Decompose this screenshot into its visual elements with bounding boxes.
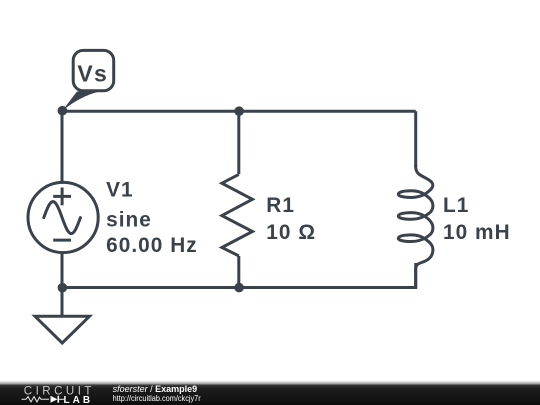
V1 body circle bbox=[28, 182, 98, 252]
wire top horizontal (node Vs net) bbox=[62, 110, 416, 113]
V1 minus polarity mark bbox=[53, 239, 71, 242]
net flag Vs tail bbox=[62, 92, 98, 111]
inductor L1 bbox=[398, 165, 433, 289]
wire right vertical top (to L1) bbox=[414, 111, 417, 167]
svg-text:LAB: LAB bbox=[64, 395, 94, 405]
svg-text:Vs: Vs bbox=[77, 61, 108, 87]
wire resistor bottom bbox=[237, 256, 240, 288]
svg-text:http://circuitlab.com/ckcjy7r: http://circuitlab.com/ckcjy7r bbox=[113, 393, 201, 403]
svg-text:10 mH: 10 mH bbox=[443, 221, 511, 244]
footer bar shadow bbox=[0, 381, 540, 385]
V1 plus polarity mark bbox=[53, 195, 71, 198]
wire left vertical top (node to V1) bbox=[61, 111, 64, 183]
svg-text:V1: V1 bbox=[106, 178, 134, 201]
wire bottom horizontal rail bbox=[62, 286, 416, 289]
wire ground stub bbox=[61, 288, 64, 316]
node dot bottom-middle bbox=[234, 283, 244, 293]
node dot top-left (Vs) bbox=[58, 106, 68, 116]
ground bbox=[35, 316, 90, 343]
wire resistor top bbox=[237, 111, 240, 174]
wire inductor bottom bbox=[414, 263, 417, 288]
svg-text:L1: L1 bbox=[443, 194, 469, 217]
wire V1 bottom to bottom rail bbox=[61, 252, 64, 288]
resistor R1 bbox=[222, 174, 253, 256]
CircuitLab logo resistor zigzag bbox=[22, 397, 50, 402]
CircuitLab logo diode bbox=[51, 396, 58, 403]
svg-text:sine: sine bbox=[106, 208, 152, 231]
node dot bottom-left bbox=[58, 283, 68, 293]
svg-text:60.00 Hz: 60.00 Hz bbox=[106, 234, 198, 257]
svg-text:R1: R1 bbox=[266, 194, 295, 217]
net flag Vs box bbox=[73, 50, 114, 90]
footer bar bbox=[0, 385, 540, 405]
V1 sine waveform mark bbox=[44, 202, 81, 234]
voltage source V1 bbox=[28, 182, 98, 252]
svg-text:10 Ω: 10 Ω bbox=[266, 221, 316, 244]
node dot top-middle bbox=[234, 106, 244, 116]
